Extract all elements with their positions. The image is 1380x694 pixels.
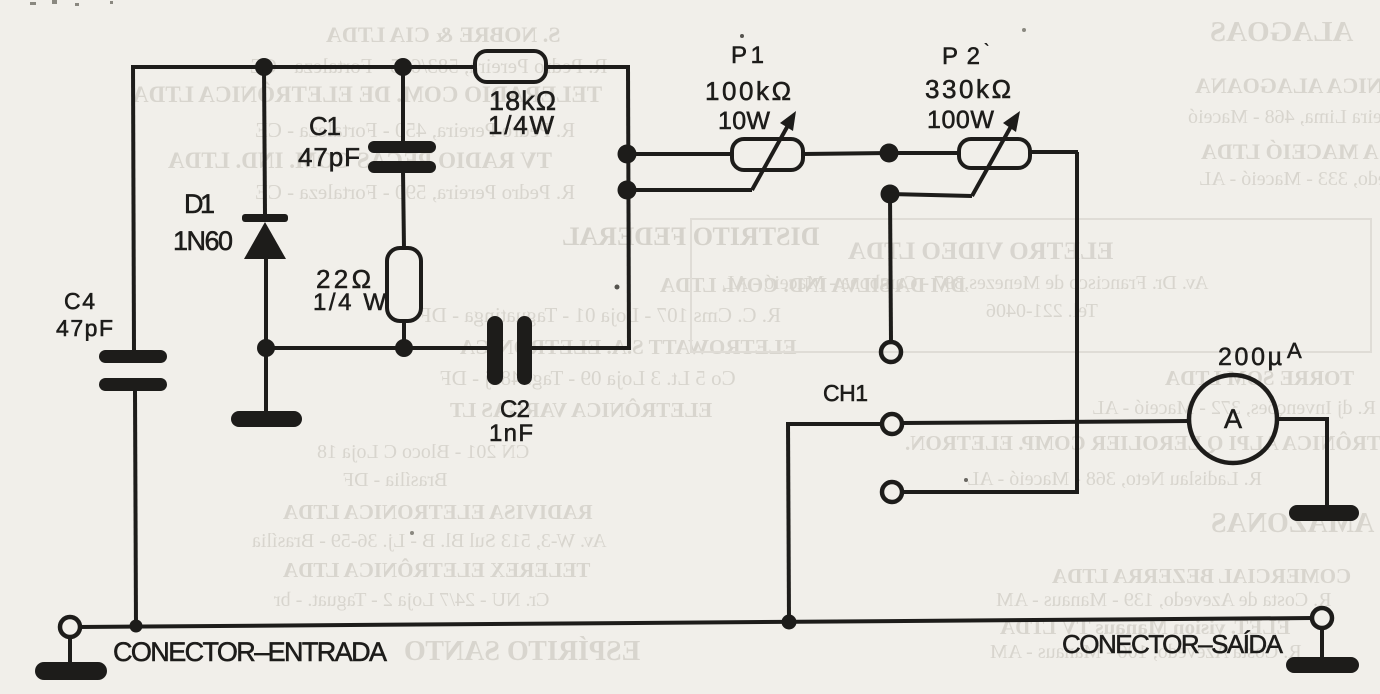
wire top rail right of R [546, 65, 630, 69]
ground meter [1289, 505, 1359, 521]
svg-text:`: ` [984, 42, 989, 59]
wire D1 branch upper [264, 67, 265, 215]
node R22 bottom [395, 339, 413, 357]
connector output terminal [1312, 608, 1332, 628]
switch CH1 pole [881, 342, 901, 362]
capacitor C4 [99, 350, 167, 391]
wire switch feed vertical [890, 194, 891, 342]
svg-text:CONECTOR–ENTRADA: CONECTOR–ENTRADA [113, 637, 387, 667]
svg-text:1N60: 1N60 [173, 226, 233, 256]
wire P1 out [803, 153, 890, 154]
wire P2 wiper diagonal [972, 121, 1014, 196]
wire R22 to mid rail [402, 320, 406, 348]
svg-text:C4: C4 [64, 288, 95, 314]
node P1 left top [618, 145, 637, 164]
svg-text:A: A [1224, 404, 1242, 434]
wire top rail [133, 65, 475, 69]
switch CH1 contact bottom [882, 482, 902, 502]
switch CH1 contact mid [882, 414, 902, 434]
resistor 22 body [387, 248, 421, 321]
svg-text:100kΩ: 100kΩ [705, 76, 791, 106]
svg-text:100W: 100W [927, 106, 994, 134]
wire C1 branch upper [401, 67, 405, 144]
wire P1 wiper horizontal [627, 188, 752, 192]
wire left drop to rail [788, 422, 789, 622]
wire P2 out vertical [1075, 152, 1079, 492]
wire mid contact to left [788, 422, 882, 426]
meter M1 [1189, 375, 1277, 463]
svg-text:C1: C1 [309, 111, 341, 141]
diode D1 [242, 214, 288, 259]
wire bottom rail [79, 618, 1313, 627]
wire mid rail [266, 346, 487, 350]
node P1 left bottom [618, 181, 637, 200]
node top C1 [394, 58, 412, 76]
svg-text:CH1: CH1 [823, 380, 868, 406]
svg-text:1/4 W: 1/4 W [313, 289, 386, 316]
svg-text:47pF: 47pF [56, 315, 113, 341]
arrow P2 [1003, 111, 1020, 132]
wire input ground [68, 637, 72, 665]
node rail CH1 [782, 615, 797, 630]
potentiometer P2 body [959, 139, 1030, 168]
wire output ground [1320, 628, 1324, 659]
node top D1 [255, 58, 273, 76]
wire left vertical upper [133, 65, 134, 351]
svg-text:P1: P1 [731, 42, 764, 69]
svg-text:P2: P2 [942, 43, 980, 70]
ground input [35, 662, 107, 680]
svg-text:1nF: 1nF [489, 420, 533, 447]
node rail C4 [130, 620, 143, 633]
advert box [690, 218, 1372, 353]
wire left vertical lower [135, 391, 136, 627]
arrow P1 [780, 111, 796, 131]
wire P1 in [627, 152, 732, 156]
wire P1 wiper diagonal [752, 120, 791, 190]
speck marks [30, 0, 1026, 535]
wire meter out [1277, 419, 1327, 507]
wire P2 in [889, 151, 960, 155]
wire D1 branch lower [264, 258, 268, 413]
capacitor C1 [368, 141, 436, 173]
bleed-through (mirrored, faint) [0, 0, 1380, 1]
wire bottom contact to P2 [902, 490, 1079, 494]
ground D1 [231, 411, 302, 427]
capacitor C2 [487, 316, 532, 385]
wire P2 wiper horizontal [890, 194, 972, 196]
svg-text:47pF: 47pF [298, 142, 360, 172]
wire right vertical [628, 67, 629, 350]
svg-text:330kΩ: 330kΩ [925, 74, 1011, 104]
svg-text:A: A [1287, 338, 1302, 363]
svg-text:CONECTOR–SAÍDA: CONECTOR–SAÍDA [1062, 629, 1284, 659]
wire C1 to R22 [403, 171, 404, 249]
svg-text:10W: 10W [718, 107, 770, 135]
wire P2 out [1030, 150, 1078, 154]
potentiometer P1 body [732, 139, 803, 170]
node D1 bottom [257, 339, 275, 357]
wire mid contact to meter [902, 421, 1189, 423]
svg-text:200µ: 200µ [1218, 343, 1282, 371]
ground output [1286, 657, 1359, 673]
node P2 left bottom [881, 185, 900, 204]
connector input terminal [60, 617, 80, 637]
svg-text:C2: C2 [500, 396, 530, 423]
wire C2 to right vertical [532, 346, 630, 350]
svg-text:D1: D1 [184, 189, 215, 219]
resistor 18k body [475, 51, 546, 82]
node P2 left top [880, 144, 899, 163]
svg-text:1/4W: 1/4W [488, 110, 554, 140]
